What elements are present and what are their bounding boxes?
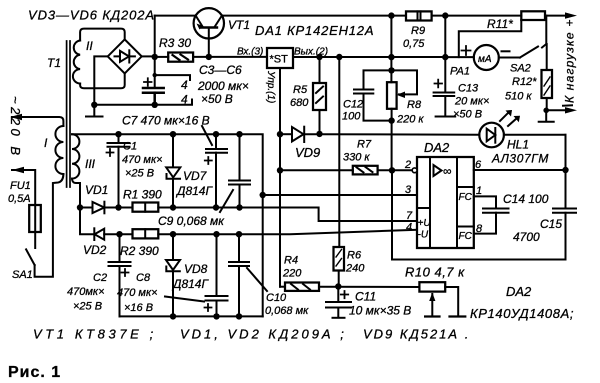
svg-text:VD3—VD6 КД202А: VD3—VD6 КД202А bbox=[28, 8, 155, 23]
svg-text:10 мк×35 В: 10 мк×35 В bbox=[349, 304, 411, 318]
svg-text:II: II bbox=[86, 39, 93, 53]
wire C15 bottom lead bbox=[565, 213, 567, 260]
svg-text:Упр.(1): Упр.(1) bbox=[265, 70, 276, 103]
svg-text:Д814Г: Д814Г bbox=[171, 277, 209, 291]
pin 2 circle bbox=[412, 168, 417, 173]
label C8 values with pointer bbox=[117, 272, 204, 314]
svg-text:VD9: VD9 bbox=[295, 145, 320, 160]
svg-text:С10: С10 bbox=[266, 292, 287, 304]
wire Upr vertical continues to R4 bbox=[279, 134, 281, 287]
svg-text:FC: FC bbox=[459, 192, 473, 203]
svg-text:×50 В: ×50 В bbox=[453, 109, 482, 121]
label C3-C6 values bbox=[181, 63, 249, 107]
node C1 bottom bbox=[115, 204, 121, 210]
label HL1 AL307GM bbox=[491, 138, 549, 166]
node C11 top bbox=[335, 283, 341, 289]
svg-text:мА: мА bbox=[478, 54, 492, 65]
svg-text:HL1: HL1 bbox=[507, 138, 529, 152]
resistor R2 bbox=[133, 229, 159, 238]
wire C12 top branch bbox=[364, 70, 392, 89]
svg-text:VD2: VD2 bbox=[83, 243, 107, 257]
svg-text:С2: С2 bbox=[93, 272, 107, 284]
wire C15 top lead bbox=[565, 135, 567, 209]
label minus mark bbox=[563, 104, 572, 106]
node output minus bbox=[543, 108, 549, 114]
bridge rectifier VD3-VD6 bbox=[108, 39, 142, 73]
arrow output plus bbox=[565, 12, 577, 18]
svg-text:T1: T1 bbox=[47, 56, 61, 70]
svg-text:470 мк×: 470 мк× bbox=[117, 287, 158, 299]
wire pin6 bbox=[474, 169, 566, 171]
capacitor C3-C6 bbox=[143, 78, 164, 105]
wire meter shunt bend to R11 left bbox=[459, 20, 522, 57]
node R8 bottom bbox=[388, 117, 394, 123]
node VD8 bottom bbox=[170, 313, 176, 319]
wire feedback down to C15 bottom wire bbox=[392, 170, 566, 259]
svg-text:680: 680 bbox=[290, 97, 309, 109]
capacitor C9 bbox=[229, 134, 250, 207]
wire negative rail B bbox=[158, 230, 417, 234]
arrow R10 wiper bbox=[425, 293, 439, 317]
transistor VT1 bbox=[194, 8, 224, 57]
node VD7 bottom bbox=[170, 204, 176, 210]
svg-text:4: 4 bbox=[406, 222, 412, 234]
svg-text:VT1 КТ837Е ;: VT1 КТ837Е ; bbox=[33, 327, 157, 342]
wire top bus y=15.6 left section to VT1 emitter bbox=[155, 15, 196, 17]
arrow output minus bbox=[565, 107, 577, 113]
svg-text:DA2: DA2 bbox=[506, 284, 532, 299]
capacitor C10 bbox=[229, 234, 249, 316]
wire winding I bottom lead down to SA1 contact bbox=[35, 174, 64, 277]
wire VD2 leads bbox=[104, 233, 132, 235]
wire R5 bottom lead bbox=[319, 110, 321, 134]
svg-text:R7: R7 bbox=[357, 139, 372, 151]
svg-text:VT1: VT1 bbox=[228, 18, 250, 32]
node R7 right / feedback bbox=[389, 167, 395, 173]
ground bbox=[86, 105, 103, 117]
svg-text:R5: R5 bbox=[293, 84, 308, 96]
svg-text:VD8: VD8 bbox=[184, 262, 208, 276]
wire R12 bottom lead bbox=[546, 98, 548, 110]
node VD9 anode / Upr bbox=[277, 131, 283, 137]
resistor R3 bbox=[168, 53, 193, 62]
node C8 bottom bbox=[213, 313, 219, 319]
wire output minus bbox=[546, 109, 570, 111]
label C1 values bbox=[122, 141, 163, 180]
svg-text:КР140УД1408А;: КР140УД1408А; bbox=[470, 306, 574, 321]
LED HL1 bbox=[479, 123, 565, 148]
opamp DA2 box bbox=[417, 157, 474, 248]
wire Vyx rail from DA1 to meter node bbox=[293, 56, 445, 58]
svg-text:РА1: РА1 bbox=[450, 66, 470, 78]
wire R10 right lead bbox=[445, 287, 458, 315]
svg-text:7: 7 bbox=[406, 210, 413, 222]
label R7 330k bbox=[343, 139, 372, 164]
capacitor C2 bbox=[109, 234, 131, 316]
svg-text:×16 В: ×16 В bbox=[124, 302, 153, 314]
wire vertical x=339 down to R6 bbox=[338, 57, 340, 247]
node base/R3 right bbox=[206, 54, 212, 60]
wire R11 right to output bbox=[545, 15, 570, 17]
wire R8 bottom to pin2 node bbox=[391, 109, 393, 171]
wire C3-C6 bracket top line bbox=[155, 75, 190, 80]
svg-text:DA1 КР142ЕН12А: DA1 КР142ЕН12А bbox=[255, 23, 374, 38]
node pin6 wire to C15 bbox=[562, 167, 568, 173]
label R9 0,75 bbox=[403, 25, 425, 50]
svg-text:240: 240 bbox=[345, 263, 365, 275]
svg-text:20 мк×: 20 мк× bbox=[454, 96, 489, 108]
svg-text:Вх.(3): Вх.(3) bbox=[237, 47, 263, 58]
node C10 top bbox=[236, 231, 242, 237]
switch SA1 lever bbox=[26, 249, 34, 265]
wire bottom bus of rectifier section bbox=[94, 100, 192, 105]
capacitor C11 bbox=[326, 287, 351, 318]
svg-text:АЛ307ГМ: АЛ307ГМ bbox=[491, 152, 549, 166]
winding III of T1 bbox=[72, 134, 79, 178]
node pin2 tap bbox=[277, 167, 283, 173]
winding II of T1 bbox=[73, 41, 80, 84]
label VD8 D814G bbox=[171, 262, 209, 291]
resistor R7 bbox=[353, 166, 378, 175]
wire winding I top lead bbox=[12, 117, 63, 126]
wire Vx rail from R3 node to DA1 bbox=[209, 56, 267, 58]
node bridge minus / bus bbox=[91, 102, 97, 108]
svg-text:FU1: FU1 bbox=[10, 180, 31, 192]
resistor R11 bbox=[521, 11, 545, 20]
wire R7 right to pin2 bbox=[378, 169, 415, 171]
arrow 220V top bbox=[10, 114, 22, 120]
svg-text:R2 390: R2 390 bbox=[120, 244, 159, 258]
wire pin2 from tap through R7 bbox=[280, 169, 353, 171]
svg-text:∞: ∞ bbox=[443, 164, 452, 178]
svg-text:III: III bbox=[85, 157, 96, 171]
arrow 220V bottom bbox=[12, 167, 24, 173]
regulator DA1 box bbox=[267, 48, 293, 68]
wire C12 bottom branch bbox=[364, 94, 392, 121]
svg-text:220 к: 220 к bbox=[396, 114, 424, 126]
svg-text:С15: С15 bbox=[540, 217, 562, 231]
node C9 bottom bbox=[236, 204, 242, 210]
wire winding II bottom lead to bridge bottom bbox=[80, 73, 125, 88]
winding I of T1 bbox=[55, 126, 63, 174]
svg-text:*ST: *ST bbox=[270, 54, 289, 66]
svg-text:Рис. 1: Рис. 1 bbox=[8, 364, 61, 381]
label DA2 type bbox=[470, 284, 574, 321]
zener VD8 bbox=[166, 234, 180, 316]
svg-text:3: 3 bbox=[405, 184, 412, 196]
svg-text:~220 В: ~220 В bbox=[8, 96, 23, 159]
svg-text:FC: FC bbox=[459, 231, 473, 242]
wire R4 branch bbox=[280, 286, 285, 288]
opamp symbol triangle infinity bbox=[434, 164, 452, 178]
svg-text:SA2: SA2 bbox=[510, 63, 531, 75]
potentiometer R10 bbox=[419, 282, 445, 291]
wire pin1 to C14 bbox=[474, 196, 496, 208]
wire winding II top lead to bridge top bbox=[80, 29, 125, 41]
wire winding III bottom lead bbox=[72, 179, 93, 235]
svg-text:R4: R4 bbox=[284, 255, 298, 267]
svg-text:DA2: DA2 bbox=[424, 140, 450, 155]
wire pin3 bbox=[263, 194, 417, 196]
svg-text:470мк×: 470мк× bbox=[67, 286, 105, 298]
node C13 top bbox=[442, 54, 448, 60]
svg-text:220: 220 bbox=[282, 268, 302, 280]
wire R8 wiper arm bbox=[392, 70, 418, 94]
svg-text:0,5А: 0,5А bbox=[8, 193, 31, 205]
wire R9 right to R11 bbox=[432, 15, 522, 17]
svg-text:100: 100 bbox=[342, 111, 361, 123]
wire meter right lead to SA2 bbox=[499, 57, 520, 59]
wire R3 leads bbox=[155, 56, 209, 58]
transformer T1 core bbox=[67, 41, 70, 187]
node C9 top bbox=[236, 131, 242, 137]
capacitor C14 bbox=[483, 209, 509, 213]
meter PA1 bbox=[474, 45, 499, 70]
resistor R8 trimmer bbox=[387, 82, 397, 109]
node VD8 top bbox=[170, 231, 176, 237]
wire Upr lead down to VD9 node bbox=[279, 68, 281, 134]
capacitor C7 bbox=[205, 134, 227, 207]
capacitor C15 bbox=[553, 209, 576, 213]
resistor R6 bbox=[334, 247, 345, 271]
svg-text:4: 4 bbox=[181, 78, 188, 92]
capacitor C8 bbox=[205, 234, 228, 316]
wire SA2 contact up to R11 right bbox=[545, 16, 547, 44]
wire positive rail A bbox=[158, 208, 417, 222]
svg-text:R9: R9 bbox=[411, 25, 425, 37]
node pin3 tap bbox=[260, 192, 266, 198]
svg-text:С7 470 мк×16 В: С7 470 мк×16 В bbox=[122, 114, 210, 128]
svg-text:×50 В: ×50 В bbox=[201, 92, 233, 106]
wire vertical x=391.4 bus to R8 top bbox=[390, 16, 392, 83]
node R6 branch top bbox=[336, 54, 342, 60]
svg-text:0,068 мк: 0,068 мк bbox=[265, 305, 309, 317]
resistor R12 bbox=[542, 70, 553, 98]
LED arrows bbox=[500, 110, 520, 126]
svg-text:К нагрузке +: К нагрузке + bbox=[563, 18, 577, 103]
diode VD1 bbox=[93, 202, 105, 214]
wire R12 top lead bbox=[546, 44, 548, 70]
caption transistor diode types bbox=[33, 327, 470, 342]
diode VD2 bbox=[94, 228, 104, 240]
wire meter left lead bbox=[445, 56, 474, 58]
label R5 680 bbox=[290, 84, 309, 109]
label C10 with pointer bbox=[247, 268, 309, 317]
resistor R5 bbox=[313, 83, 326, 110]
diode VD9 bbox=[280, 127, 320, 142]
wire bridge right vertex to R3 node bbox=[142, 55, 155, 57]
common bar under C13 bbox=[436, 116, 456, 118]
svg-text:VD1, VD2 КД209А ;: VD1, VD2 КД209А ; bbox=[180, 327, 347, 342]
node R8 top bbox=[388, 67, 394, 73]
wire R4 right to C11 node bbox=[319, 286, 419, 288]
label meter plus bbox=[462, 46, 471, 55]
node C8 top bbox=[213, 231, 219, 237]
resistor R1 bbox=[133, 203, 159, 212]
svg-text:+U: +U bbox=[418, 218, 432, 229]
svg-text:SA1: SA1 bbox=[12, 269, 33, 281]
svg-text:R10 4,7 к: R10 4,7 к bbox=[405, 265, 465, 280]
svg-text:330 к: 330 к bbox=[343, 152, 370, 164]
wire vertical x=445.3 to C13 node bbox=[444, 16, 446, 58]
node x=391 Vyx junction bbox=[388, 54, 394, 60]
node VD7 top bbox=[170, 131, 176, 137]
node C3-C6 bottom bbox=[152, 102, 158, 108]
capacitor C1 bbox=[107, 134, 130, 207]
wire FU1 bottom lead bbox=[34, 232, 36, 248]
svg-text:R11*: R11* bbox=[487, 17, 513, 31]
common bar under R10 right bbox=[450, 315, 466, 317]
node R5 bottom bbox=[316, 131, 322, 137]
label FU1 0,5A bbox=[8, 180, 31, 205]
wire bus VD9 node to LED bbox=[320, 133, 480, 136]
label C12 100 bbox=[342, 99, 363, 123]
label R8 220k bbox=[396, 99, 424, 126]
svg-text:VD1: VD1 bbox=[85, 183, 108, 197]
svg-text:1: 1 bbox=[476, 185, 482, 197]
label C7 with pointer bbox=[122, 114, 212, 146]
node R9 right bbox=[442, 12, 448, 18]
wire common rail C bbox=[120, 315, 263, 317]
fuse FU1 bbox=[29, 205, 41, 232]
svg-text:С9 0,068 мк: С9 0,068 мк bbox=[158, 214, 225, 228]
node C7 top bbox=[213, 131, 219, 137]
wire R5 top lead bbox=[319, 57, 321, 83]
wire top bus y=15.6 VT1 collector to R9 bbox=[222, 15, 406, 17]
switch SA2 lever bbox=[520, 47, 538, 58]
zener VD7 bbox=[166, 134, 180, 207]
switch SA2 contact tick bbox=[542, 44, 546, 48]
svg-text:2: 2 bbox=[404, 159, 411, 171]
svg-text:×25 В: ×25 В bbox=[73, 301, 102, 313]
svg-text:R12*: R12* bbox=[512, 76, 537, 88]
svg-text:4: 4 bbox=[181, 93, 188, 107]
svg-text:×25 В: ×25 В bbox=[125, 168, 154, 180]
node R5 top bbox=[316, 54, 322, 60]
svg-text:-U: -U bbox=[418, 230, 429, 241]
svg-text:VD7: VD7 bbox=[183, 169, 208, 183]
label C15 4700 bbox=[513, 217, 562, 244]
resistor R4 bbox=[285, 283, 319, 291]
svg-text:VD9 КД521А .: VD9 КД521А . bbox=[363, 327, 470, 342]
wire main bus y=134 from winding III bbox=[72, 134, 263, 316]
wire VD1 leads bbox=[80, 207, 133, 209]
svg-text:R1 390: R1 390 bbox=[123, 188, 162, 202]
svg-text:R3 30: R3 30 bbox=[159, 36, 191, 50]
wire FU1 top lead bbox=[12, 170, 35, 205]
svg-text:С1: С1 bbox=[123, 141, 137, 153]
label R6 240 bbox=[345, 250, 365, 275]
label C11 values bbox=[349, 290, 411, 318]
node C10 bottom bbox=[236, 313, 242, 319]
wire vertical x=154.7 from top bus corner down through R3 node to C3-C6 bbox=[154, 16, 156, 88]
svg-text:2000 мк×: 2000 мк× bbox=[197, 79, 249, 93]
capacitor C12 bbox=[354, 90, 373, 94]
node C1 top bbox=[115, 131, 121, 137]
svg-text:Д814Г: Д814Г bbox=[175, 184, 213, 198]
node C2 top bbox=[116, 231, 122, 237]
svg-text:470 мк×: 470 мк× bbox=[122, 154, 163, 166]
svg-text:0,75: 0,75 bbox=[403, 38, 425, 50]
node C7 bottom bbox=[213, 204, 219, 210]
svg-text:С3—С6: С3—С6 bbox=[199, 63, 242, 77]
svg-text:С14 100: С14 100 bbox=[503, 192, 549, 206]
resistor R9 bbox=[406, 11, 432, 20]
node VD1 anode bbox=[77, 204, 83, 210]
svg-text:Вых.(2): Вых.(2) bbox=[294, 47, 328, 58]
arrow R8 wiper head bbox=[397, 92, 405, 99]
label VD7 D814G bbox=[175, 169, 213, 198]
node R3 left bbox=[152, 54, 158, 60]
wire R6 bottom lead bbox=[338, 271, 340, 287]
node C3-C6 top branch bbox=[153, 73, 157, 77]
capacitor C13 bbox=[434, 57, 455, 116]
label C9 with pointer bbox=[158, 190, 233, 228]
label PA1 C13 values bbox=[450, 66, 489, 121]
label C2 values bbox=[67, 272, 107, 313]
svg-text:С12: С12 bbox=[343, 99, 363, 111]
wire C14 bottom to pin8 bbox=[474, 213, 496, 234]
label R4 220 bbox=[282, 255, 302, 280]
label R12* 510k bbox=[505, 76, 537, 103]
svg-text:С13: С13 bbox=[458, 83, 479, 95]
label meter minus bbox=[502, 50, 510, 52]
svg-text:R8: R8 bbox=[407, 99, 422, 111]
node bus R9 left bbox=[388, 12, 394, 18]
ground under R12 bbox=[539, 110, 554, 122]
svg-text:4700: 4700 bbox=[513, 230, 540, 244]
svg-text:R6: R6 bbox=[347, 250, 362, 262]
svg-text:510 к: 510 к bbox=[505, 91, 532, 103]
svg-text:С11: С11 bbox=[355, 290, 376, 304]
svg-text:С8: С8 bbox=[136, 272, 151, 284]
wire bridge left vertex to ground node bbox=[94, 56, 107, 105]
